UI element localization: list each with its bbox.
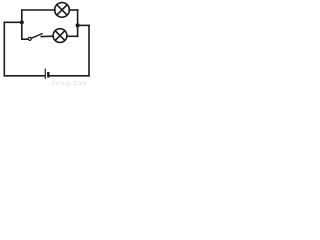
wire from left vertical to junction [4,21,22,23]
wire branch2 right segment [67,35,78,37]
wire bottom left segment [4,75,45,77]
battery long plate [44,69,46,79]
wire right inner vertical [77,10,79,36]
battery short thick plate [47,72,49,78]
lamp L2 [53,29,67,43]
switch S blade [31,34,42,39]
wire bottom right segment [49,75,89,77]
wire left inner vertical [21,10,23,39]
wire switch stub [22,38,28,40]
node junction right [76,23,80,27]
svg-text:2lcnjy.Com: 2lcnjy.Com [52,81,87,86]
wire from junction to right outer vertical [78,24,89,26]
wire top branch left segment [22,9,55,11]
wire left outer vertical [3,22,5,76]
wire from lamp L1 to right inner vertical [69,9,77,11]
lamp L1 [55,3,70,18]
wire right outer vertical [88,25,90,75]
switch S pivot [28,37,31,40]
wire switch fixed contact to lamp L2 [41,35,53,37]
node junction left [20,20,24,24]
